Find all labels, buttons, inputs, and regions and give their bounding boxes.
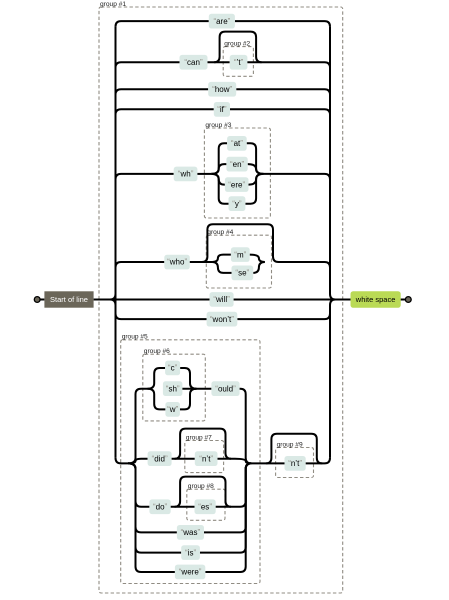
svg-text:“c”: “c” [168,364,178,373]
group #8 box [187,483,225,520]
svg-text:“wh”: “wh” [178,170,194,179]
svg-text:“’t”: “’t” [234,58,244,67]
exit junction arc from below [330,300,336,306]
wire from literal are [235,21,330,27]
literal "was" [177,525,204,540]
group #4 branch to m [212,255,231,262]
skip line over group #7 [175,429,231,459]
literal "is" [181,545,200,560]
literal "will" [210,292,234,307]
group #1 box [99,1,343,593]
literal "ould" [211,381,239,396]
group #6 branch from w [180,389,197,410]
group #4 branch from se [253,262,265,273]
svg-text:“se”: “se” [235,269,249,278]
literal "m" [231,247,250,262]
group #5 branch to is [128,463,181,552]
group #3 branch from ere [249,174,264,185]
literal "who" [164,255,190,270]
svg-text:“do”: “do” [153,503,168,512]
svg-text:“did”: “did” [152,454,168,463]
skip line over group #9 [266,434,322,464]
wire outer rail to group #5 [116,458,129,464]
svg-text:group #6: group #6 [144,348,170,355]
group #7 box [185,434,224,472]
group #3 branch from en [248,164,264,174]
svg-text:“can”: “can” [184,58,203,67]
group #6 box [143,348,206,421]
wire to literal if [116,109,214,115]
group #5 branch to group #6 row [128,389,148,464]
svg-text:“will”: “will” [213,295,230,304]
svg-text:group #3: group #3 [205,122,231,129]
svg-text:“is”: “is” [185,548,196,557]
main line into will [94,299,210,301]
svg-text:group #7: group #7 [186,434,212,441]
group #4 branch to se [212,262,231,273]
literal "w" [165,402,180,417]
group #3 branch to ere [211,174,225,185]
skip line over group #4 [202,224,279,262]
wire group #9 to right rail [306,458,330,464]
wire from group #2 [247,62,330,67]
group #4 branch from m [250,255,265,262]
literal "'t" [230,55,248,70]
group #5 branch from ould row [240,389,252,464]
literal "did" [148,451,172,466]
wire to literal who [116,262,165,268]
literal "ere" [225,177,249,192]
group #4 box [206,229,271,288]
group #5 branch to do [128,463,149,506]
outer alternation right rail lower [329,305,331,458]
start terminal circle [34,297,40,303]
group #9 box [276,441,314,477]
svg-text:“ere”: “ere” [228,180,245,189]
literal "if" [214,102,230,117]
anchor Start of line [44,291,93,307]
wire from literal how [236,89,330,95]
wire do to group #8 [171,506,195,508]
wire group #5 exit to group #9 [251,462,284,464]
skip line over group #2 [214,32,262,63]
wire sh row to ould [182,388,211,390]
svg-text:“sh”: “sh” [166,384,180,393]
group #3 branch from y [245,174,263,204]
literal "se" [232,266,254,281]
literal "y" [229,196,246,211]
literal "do" [149,499,170,514]
literal "how" [208,82,236,97]
svg-text:group #5: group #5 [122,334,148,341]
literal "wh" [174,167,198,182]
entry junction arc down [110,300,116,306]
group #3 box [204,122,270,218]
literal "won't" [207,312,238,327]
wire did to group #7 [172,458,195,460]
group #5 branch from did row [235,459,251,464]
group #5 branch from do row [235,463,251,506]
svg-text:“who”: “who” [167,258,187,267]
svg-text:“y”: “y” [232,199,242,208]
group #5 branch from were [205,463,251,572]
main line from will to white space [234,299,351,301]
group #6 branch to c [148,368,166,389]
wire from group #7 [218,458,236,460]
svg-text:“m”: “m” [234,250,246,259]
literal "es" in group #8 [195,499,216,514]
svg-text:“en”: “en” [230,160,245,169]
wire from literal if [230,109,330,115]
skip line over group #8 [175,477,231,507]
group #5 branch to did [128,459,148,464]
literal "en" [226,157,247,172]
outer alternation left rail [115,27,117,458]
svg-text:“ould”: “ould” [215,384,236,393]
literal "at" [227,136,247,151]
svg-text:“at”: “at” [231,139,243,148]
escape white space [351,291,401,307]
literal "were" [175,565,205,580]
literal "sh" [163,381,183,396]
svg-text:group #8: group #8 [188,483,214,490]
group #3 branch to en [211,164,226,174]
svg-text:“was”: “was” [181,528,201,537]
group #5 box [121,334,260,584]
svg-text:group #2: group #2 [224,40,250,47]
svg-text:“are”: “are” [213,17,230,26]
wire from literal won't [237,314,330,320]
svg-text:“were”: “were” [179,568,202,577]
group #3 branch from at [247,143,264,174]
group #5 branch from was [204,463,251,532]
group #5 branch from is [200,463,251,552]
wire who to group #4 [190,261,212,263]
group #6 branch from c [180,368,196,389]
group #5 branch to was [128,463,177,532]
literal "n't" in group #9 [285,456,306,471]
svg-text:“if”: “if” [217,105,227,114]
group #3 branch to at [211,143,227,174]
wire white space to end terminal [401,299,406,301]
group #6 branch to w [148,389,166,410]
literal "n't" in group #7 [195,451,218,466]
end terminal circle [405,297,411,303]
wire to literal can [116,62,180,67]
exit junction arc from above [330,294,336,300]
wire from group #3 [263,174,330,180]
wire can to group #2 [208,61,230,63]
wire to literal won't [116,314,207,320]
wire to literal how [116,89,209,95]
svg-text:group #4: group #4 [207,229,233,236]
outer alternation right rail upper [329,27,331,294]
svg-text:“how”: “how” [212,85,232,94]
group #3 branch to y [211,174,228,204]
entry junction arc up [110,294,116,300]
svg-text:“es”: “es” [198,503,212,512]
literal "can" [180,55,208,70]
literal "are" [209,14,235,29]
wire wh to group #3 [197,173,211,175]
wire from group #8 [216,506,235,508]
literal "c" [165,361,180,376]
wire terminal to Start of line [40,299,44,301]
group #5 branch to were [128,463,175,572]
svg-text:“w”: “w” [167,405,178,414]
svg-text:Start of line: Start of line [50,295,88,304]
wire from group #4 to right rail [279,262,331,268]
wire to literal are [116,21,209,27]
group #2 box [223,40,253,76]
wire to literal wh [116,174,174,180]
svg-text:“n’t”: “n’t” [199,454,213,463]
svg-text:group #9: group #9 [277,441,303,448]
svg-text:white space: white space [355,295,396,304]
svg-text:group #1: group #1 [100,1,126,8]
svg-text:“won’t”: “won’t” [210,315,234,324]
svg-text:“n’t”: “n’t” [288,459,302,468]
